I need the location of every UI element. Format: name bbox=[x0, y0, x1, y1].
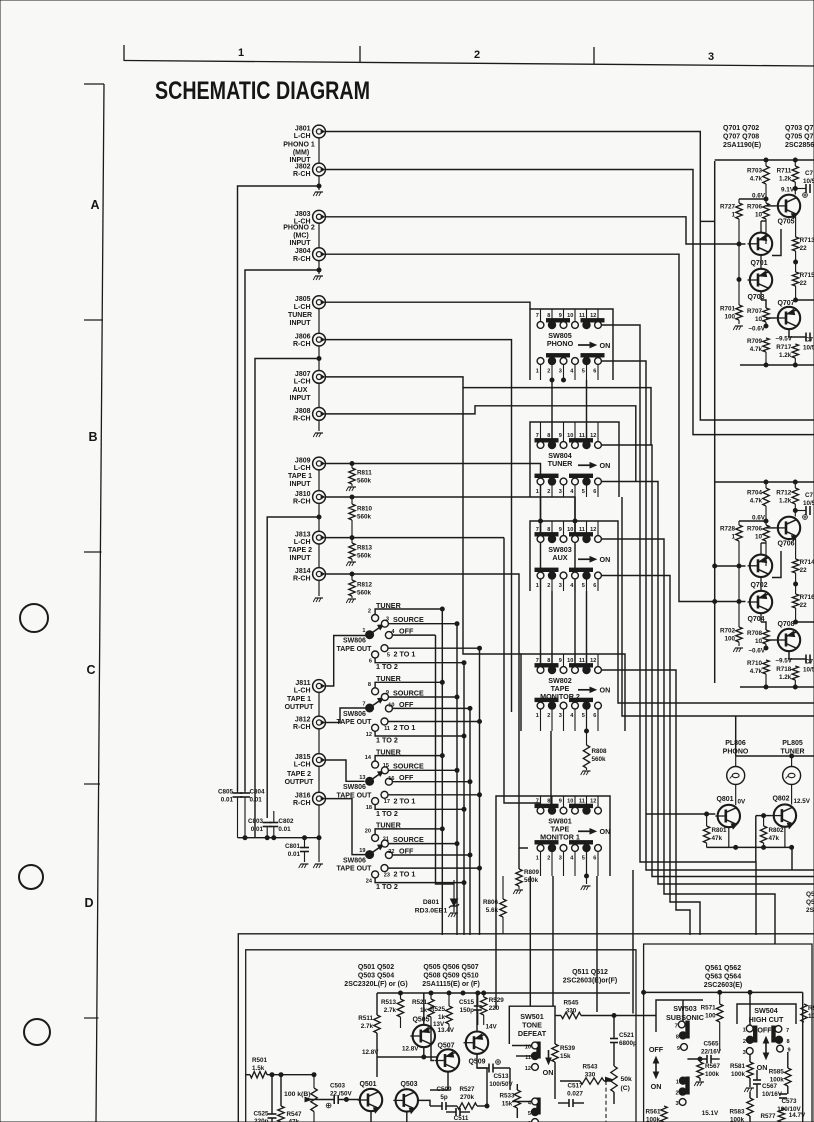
svg-text:560k: 560k bbox=[357, 478, 372, 485]
svg-text:1: 1 bbox=[676, 1080, 679, 1086]
svg-text:C804: C804 bbox=[250, 789, 266, 796]
transistor Q706 bbox=[778, 517, 800, 539]
svg-text:560k: 560k bbox=[357, 514, 372, 521]
svg-text:R810: R810 bbox=[357, 506, 373, 513]
svg-text:R809: R809 bbox=[524, 869, 540, 876]
svg-text:47k: 47k bbox=[712, 835, 723, 842]
wire J805 tuner L bbox=[325, 302, 530, 309]
svg-text:R533: R533 bbox=[499, 1093, 515, 1100]
svg-text:22: 22 bbox=[800, 602, 808, 609]
wire Q801 base bbox=[646, 813, 715, 815]
svg-text:5: 5 bbox=[582, 489, 585, 495]
wire bus L1 bbox=[602, 325, 757, 935]
transistor Q705 bbox=[778, 195, 800, 217]
svg-text:1: 1 bbox=[238, 47, 244, 59]
svg-text:2: 2 bbox=[547, 583, 550, 589]
svg-text:Q561 Q562: Q561 Q562 bbox=[705, 965, 741, 972]
svg-text:Q5: Q5 bbox=[806, 899, 814, 906]
left margin border bbox=[84, 83, 104, 85]
svg-text:AUX: AUX bbox=[293, 387, 308, 394]
resistor R715 22 bbox=[792, 272, 798, 286]
svg-text:7: 7 bbox=[362, 702, 365, 708]
switch SW806 TAPE OUT section 19 bbox=[366, 851, 374, 859]
transistor Q707 bbox=[778, 307, 800, 329]
resistor R808 560k bbox=[586, 709, 588, 745]
svg-text:15k: 15k bbox=[560, 1053, 571, 1060]
svg-text:R706: R706 bbox=[747, 526, 763, 533]
svg-text:12.5V: 12.5V bbox=[794, 798, 811, 805]
svg-text:A: A bbox=[90, 198, 99, 212]
svg-text:INPUT: INPUT bbox=[290, 320, 312, 327]
svg-text:10: 10 bbox=[755, 638, 763, 645]
wire bus F bbox=[495, 876, 497, 1009]
jack J808 bbox=[313, 408, 326, 421]
svg-text:J815: J815 bbox=[295, 754, 311, 761]
potentiometer 50k (C) bbox=[611, 1066, 617, 1092]
svg-text:12: 12 bbox=[590, 658, 596, 664]
svg-text:R501: R501 bbox=[252, 1057, 268, 1064]
svg-text:R801: R801 bbox=[712, 827, 728, 834]
svg-text:22 /50V: 22 /50V bbox=[330, 1090, 353, 1097]
wire J815 to SW806 wiper 13 bbox=[325, 760, 364, 781]
svg-text:1: 1 bbox=[536, 489, 539, 495]
wire Q802 emitter bbox=[784, 827, 786, 848]
svg-text:9: 9 bbox=[386, 690, 389, 696]
switch SW503 SUBSONIC box bbox=[656, 1000, 703, 1032]
svg-text:ON: ON bbox=[600, 686, 611, 695]
svg-text:1.2k: 1.2k bbox=[779, 352, 792, 359]
svg-text:AUX: AUX bbox=[552, 553, 567, 562]
wire bus L6 bbox=[602, 576, 701, 936]
resistor R703 4.7k bbox=[765, 160, 767, 166]
svg-text:100: 100 bbox=[724, 636, 735, 643]
ground below J808 bbox=[315, 432, 323, 434]
svg-text:22: 22 bbox=[800, 567, 808, 574]
svg-text:J813: J813 bbox=[295, 532, 311, 539]
svg-text:3: 3 bbox=[386, 617, 389, 623]
svg-text:3: 3 bbox=[675, 1101, 678, 1107]
wire SW802 to SW801 bbox=[550, 731, 552, 806]
svg-text:TUNER: TUNER bbox=[288, 312, 312, 319]
bottom right box bbox=[644, 944, 812, 1122]
transistor Q802 bbox=[774, 804, 796, 826]
svg-text:6800p: 6800p bbox=[619, 1040, 637, 1047]
resistor R707 10 bbox=[760, 291, 762, 300]
bottom section outer box bbox=[238, 934, 814, 1122]
svg-text:TAPE 1: TAPE 1 bbox=[287, 696, 311, 703]
resistor R521 1k bbox=[430, 993, 432, 999]
svg-text:R706: R706 bbox=[747, 204, 763, 211]
svg-text:12: 12 bbox=[366, 732, 372, 738]
wire left rail from J804 ground node bbox=[245, 270, 319, 791]
svg-text:C503: C503 bbox=[330, 1083, 346, 1090]
resistor R704 4.7k bbox=[765, 482, 767, 488]
svg-text:1 TO 2: 1 TO 2 bbox=[376, 882, 398, 891]
svg-text:10: 10 bbox=[525, 1045, 531, 1051]
ground below J814 bbox=[315, 597, 323, 599]
resistor R717 1.2k bbox=[792, 344, 798, 358]
wire SW801 contact5 ground stub bbox=[586, 852, 588, 884]
wire Q701 emitter bbox=[760, 221, 762, 233]
lamp PL806 bbox=[735, 756, 737, 767]
svg-text:R701: R701 bbox=[720, 306, 736, 313]
svg-text:TUNER: TUNER bbox=[548, 459, 574, 468]
svg-text:SCHEMATIC DIAGRAM: SCHEMATIC DIAGRAM bbox=[155, 77, 370, 105]
resistor R708 10 bbox=[760, 613, 762, 622]
svg-text:10: 10 bbox=[567, 527, 573, 533]
svg-text:22: 22 bbox=[800, 245, 808, 252]
resistor R810 560k bbox=[351, 497, 353, 504]
wire contact off bbox=[392, 707, 470, 709]
svg-text:C801: C801 bbox=[285, 843, 301, 850]
wire Q509 emitter bbox=[477, 1054, 487, 1068]
svg-text:8: 8 bbox=[547, 433, 550, 439]
svg-text:R715: R715 bbox=[800, 272, 814, 279]
ground below SW801 bbox=[583, 885, 591, 887]
wire base Q707 bbox=[766, 317, 776, 319]
svg-text:C805: C805 bbox=[218, 789, 234, 796]
jack J811 bbox=[313, 680, 326, 693]
svg-text:Q505: Q505 bbox=[412, 1017, 429, 1024]
capacitor C573 100/10V bbox=[779, 1093, 787, 1095]
wire J816 to SW806 wiper 19 bbox=[325, 799, 365, 855]
svg-text:2 TO 1: 2 TO 1 bbox=[394, 870, 416, 879]
svg-text:100 k(B): 100 k(B) bbox=[284, 1091, 310, 1098]
svg-text:10: 10 bbox=[567, 798, 573, 804]
svg-text:4.7k: 4.7k bbox=[750, 668, 763, 675]
svg-text:L-CH: L-CH bbox=[294, 465, 311, 472]
svg-text:2: 2 bbox=[474, 49, 480, 61]
wire J807 aux L bbox=[325, 377, 651, 445]
svg-text:C517: C517 bbox=[567, 1083, 583, 1090]
svg-text:47k: 47k bbox=[289, 1119, 300, 1122]
resistor R710 4.7k bbox=[763, 660, 769, 674]
svg-text:R718: R718 bbox=[776, 666, 792, 673]
svg-text:TAPE 2: TAPE 2 bbox=[287, 771, 311, 778]
svg-text:R813: R813 bbox=[357, 545, 373, 552]
svg-text:17: 17 bbox=[384, 799, 390, 805]
wire J810 tape1 in R bbox=[325, 497, 575, 663]
svg-text:J812: J812 bbox=[295, 717, 311, 724]
svg-text:2: 2 bbox=[547, 713, 550, 719]
capacitor C802 0.01 bbox=[273, 811, 275, 823]
svg-text:50k: 50k bbox=[621, 1076, 633, 1083]
svg-text:20: 20 bbox=[365, 828, 371, 834]
wire Q802 base bbox=[756, 815, 772, 817]
svg-text:R577: R577 bbox=[760, 1113, 776, 1120]
svg-text:0.01: 0.01 bbox=[250, 797, 263, 804]
svg-text:270k: 270k bbox=[460, 1094, 475, 1101]
wire contact 1to2 bbox=[375, 658, 464, 663]
svg-text:R5: R5 bbox=[808, 1005, 814, 1012]
wire base Q705 bbox=[766, 205, 776, 207]
svg-text:ON: ON bbox=[651, 1082, 662, 1091]
wire cascode bbox=[772, 229, 781, 256]
resistor R585 100k bbox=[785, 1068, 791, 1086]
svg-text:SOURCE: SOURCE bbox=[393, 615, 424, 624]
svg-text:R-CH: R-CH bbox=[293, 576, 311, 583]
svg-text:100k: 100k bbox=[770, 1077, 785, 1084]
svg-text:ON: ON bbox=[543, 1068, 554, 1077]
svg-text:R711: R711 bbox=[777, 168, 792, 175]
svg-text:11: 11 bbox=[525, 1055, 531, 1061]
svg-text:SOURCE: SOURCE bbox=[393, 688, 424, 697]
capacitor C7 electrolytic bbox=[795, 510, 806, 512]
resistor R539 15k bbox=[552, 1044, 558, 1062]
resistor R525 1k bbox=[448, 993, 450, 1006]
switch SW805 ON arrow bbox=[578, 344, 593, 346]
svg-text:5: 5 bbox=[582, 583, 585, 589]
svg-text:TAPE OUT: TAPE OUT bbox=[337, 719, 373, 726]
resistor R567 100k bbox=[697, 1062, 703, 1078]
svg-text:3: 3 bbox=[559, 583, 562, 589]
svg-text:2SC2603(E): 2SC2603(E) bbox=[704, 982, 743, 989]
svg-text:R547: R547 bbox=[287, 1111, 303, 1118]
wire lamp feed 1 bbox=[618, 591, 814, 703]
switch SW803 ON arrow bbox=[578, 558, 593, 560]
wire tone amp top rail bbox=[377, 992, 630, 994]
svg-text:2S: 2S bbox=[806, 907, 814, 914]
svg-text:11: 11 bbox=[579, 798, 585, 804]
svg-text:1.2k: 1.2k bbox=[779, 674, 792, 681]
svg-text:7: 7 bbox=[675, 1024, 678, 1030]
svg-text:R714: R714 bbox=[800, 559, 814, 566]
svg-text:Q503 Q504: Q503 Q504 bbox=[358, 973, 394, 980]
svg-text:INPUT: INPUT bbox=[290, 481, 312, 488]
ground below R813 bbox=[348, 561, 356, 563]
svg-text:TAPE OUT: TAPE OUT bbox=[337, 792, 373, 799]
svg-text:R707: R707 bbox=[747, 308, 763, 315]
svg-text:10/5: 10/5 bbox=[803, 500, 814, 507]
ground below R808 bbox=[583, 770, 591, 772]
jack J809 bbox=[313, 457, 326, 470]
svg-text:4.7k: 4.7k bbox=[750, 498, 763, 505]
svg-text:C7: C7 bbox=[805, 170, 814, 177]
svg-text:HIGH CUT: HIGH CUT bbox=[749, 1015, 784, 1024]
svg-text:14: 14 bbox=[365, 755, 372, 761]
svg-text:OUTPUT: OUTPUT bbox=[285, 704, 315, 711]
wire lamp section bottom bbox=[707, 847, 792, 870]
resistor R801 47k bbox=[706, 814, 708, 826]
wire contact tuner bbox=[375, 682, 442, 688]
svg-text:9: 9 bbox=[677, 1046, 680, 1052]
svg-text:R-CH: R-CH bbox=[293, 416, 311, 423]
svg-text:0.01: 0.01 bbox=[288, 851, 301, 858]
jack J807 bbox=[313, 371, 326, 384]
switch SW501 contacts lower bbox=[537, 1098, 540, 1114]
wire amp bottom rail bbox=[740, 686, 814, 688]
svg-text:R571: R571 bbox=[701, 1005, 717, 1012]
svg-text:R703: R703 bbox=[747, 168, 763, 175]
svg-text:8: 8 bbox=[547, 798, 550, 804]
wire jack stems phono2 bbox=[318, 223, 320, 248]
hole punch marks bbox=[20, 604, 48, 632]
wire bus E bbox=[479, 648, 481, 935]
svg-text:12: 12 bbox=[590, 798, 596, 804]
svg-text:R-CH: R-CH bbox=[293, 800, 311, 807]
wire contact off bbox=[392, 781, 470, 783]
transistor Q505 bbox=[413, 1025, 435, 1047]
svg-text:5p: 5p bbox=[440, 1094, 448, 1101]
svg-text:R710: R710 bbox=[747, 660, 763, 667]
svg-text:C7: C7 bbox=[805, 659, 814, 666]
resistor R712 1.2k bbox=[794, 482, 796, 488]
resistor R813 560k bbox=[351, 538, 353, 543]
svg-text:8: 8 bbox=[547, 527, 550, 533]
wire J806 tuner R bbox=[325, 340, 511, 712]
svg-text:C511: C511 bbox=[454, 1115, 469, 1122]
wire bus L4 bbox=[602, 482, 814, 885]
svg-text:6: 6 bbox=[593, 583, 596, 589]
wire C513 right bbox=[509, 1068, 511, 1090]
svg-text:Q701 Q702: Q701 Q702 bbox=[723, 125, 759, 132]
svg-text:INPUT: INPUT bbox=[290, 157, 312, 164]
switch SW801 ON arrow bbox=[578, 830, 593, 832]
svg-text:ON: ON bbox=[757, 1063, 768, 1072]
resistor R728 bbox=[738, 521, 740, 525]
wire right box rail bbox=[644, 991, 803, 993]
svg-text:J809: J809 bbox=[295, 458, 311, 465]
svg-text:OFF: OFF bbox=[757, 1026, 772, 1035]
svg-text:1: 1 bbox=[731, 534, 735, 541]
svg-text:8: 8 bbox=[787, 1039, 790, 1045]
svg-text:R802: R802 bbox=[769, 827, 785, 834]
resistor R802 47k bbox=[763, 816, 765, 826]
wire contact tuner bbox=[375, 829, 442, 835]
wire contact off bbox=[392, 854, 470, 856]
switch SW804 bottom contacts bbox=[535, 474, 558, 477]
wire Q507 base bbox=[431, 1025, 434, 1061]
svg-text:1: 1 bbox=[362, 628, 365, 634]
jack J815 bbox=[313, 754, 326, 767]
switch SW504 left contacts bbox=[754, 1026, 757, 1042]
wire Q801 emitter bbox=[728, 827, 730, 847]
resistor R571 100 bbox=[719, 992, 721, 1004]
svg-text:13: 13 bbox=[359, 775, 365, 781]
svg-text:ON: ON bbox=[600, 827, 611, 836]
wire bus J bbox=[632, 870, 634, 1014]
svg-text:C802: C802 bbox=[278, 818, 294, 825]
svg-text:J803: J803 bbox=[295, 211, 311, 218]
switch SW801 bottom contacts bbox=[535, 841, 558, 844]
svg-text:OFF: OFF bbox=[399, 627, 414, 636]
svg-text:9.1V: 9.1V bbox=[781, 187, 795, 194]
svg-text:Q505 Q506 Q507: Q505 Q506 Q507 bbox=[423, 964, 478, 971]
ground below D801 bbox=[450, 912, 458, 914]
resistor R706 10 bbox=[763, 203, 769, 219]
svg-text:Q508 Q509 Q510: Q508 Q509 Q510 bbox=[423, 973, 478, 980]
svg-text:12: 12 bbox=[590, 433, 596, 439]
wire jack stems aux bbox=[318, 383, 320, 407]
switch SW804 block outline bbox=[530, 422, 619, 497]
resistor R513 2.7k bbox=[400, 993, 402, 999]
svg-text:J802: J802 bbox=[295, 164, 311, 171]
svg-text:Q507: Q507 bbox=[437, 1043, 454, 1050]
wire bus L5 bbox=[602, 539, 776, 944]
svg-text:R539: R539 bbox=[560, 1045, 576, 1052]
svg-text:OUTPUT: OUTPUT bbox=[285, 779, 315, 786]
svg-text:L-CH: L-CH bbox=[294, 688, 311, 695]
svg-text:PHONO 2: PHONO 2 bbox=[283, 225, 315, 232]
svg-text:R511: R511 bbox=[358, 1015, 373, 1022]
svg-text:SOURCE: SOURCE bbox=[393, 762, 424, 771]
switch SW501 ON arrow bbox=[548, 1050, 550, 1061]
svg-text:J816: J816 bbox=[295, 793, 311, 800]
wire bus D2 bbox=[469, 708, 471, 935]
svg-text:RD3.0EB1: RD3.0EB1 bbox=[415, 908, 448, 915]
svg-text:100: 100 bbox=[705, 1013, 716, 1020]
wire jack stems tape2 in bbox=[318, 544, 320, 568]
wire SW504 stubs bbox=[749, 992, 751, 1025]
svg-text:SUBSONIC: SUBSONIC bbox=[666, 1013, 704, 1022]
resistor R511 2.7k bbox=[374, 1015, 380, 1033]
switch SW804 ON arrow bbox=[578, 464, 593, 466]
svg-text:D801: D801 bbox=[423, 899, 439, 906]
svg-text:R585: R585 bbox=[769, 1069, 785, 1076]
svg-text:R808: R808 bbox=[592, 748, 608, 755]
svg-text:18: 18 bbox=[366, 805, 372, 811]
svg-text:2 TO 1: 2 TO 1 bbox=[394, 650, 416, 659]
svg-text:2SC2603(E)or(F): 2SC2603(E)or(F) bbox=[563, 978, 617, 985]
svg-text:6: 6 bbox=[369, 659, 372, 665]
svg-text:10: 10 bbox=[567, 313, 573, 319]
transistor Q507 bbox=[437, 1049, 459, 1071]
ground below R702 bbox=[735, 647, 743, 649]
bottom left box bbox=[246, 950, 636, 1122]
svg-text:R561: R561 bbox=[645, 1109, 661, 1116]
transistor Q801 bbox=[718, 805, 740, 827]
capacitor C515 150p bbox=[477, 993, 479, 1005]
svg-text:2: 2 bbox=[547, 856, 550, 862]
jack J816 bbox=[313, 792, 326, 805]
switch SW503 contacts upper bbox=[686, 1021, 689, 1038]
svg-text:Q703 Q704: Q703 Q704 bbox=[785, 125, 814, 132]
wire contact 2to1 bbox=[388, 721, 480, 723]
svg-text:2SC2856(E): 2SC2856(E) bbox=[785, 142, 814, 149]
capacitor C7 electrolytic bbox=[789, 329, 806, 337]
svg-text:Q702: Q702 bbox=[750, 582, 767, 589]
svg-text:10/5: 10/5 bbox=[803, 178, 814, 185]
svg-text:1.2k: 1.2k bbox=[779, 176, 792, 183]
svg-text:12: 12 bbox=[590, 527, 596, 533]
capacitor C801 0.01 bbox=[304, 838, 306, 847]
svg-text:Q705: Q705 bbox=[777, 219, 794, 226]
wire base Q708 bbox=[766, 639, 776, 641]
svg-text:1: 1 bbox=[743, 1028, 746, 1034]
ground below J816 bbox=[315, 863, 323, 865]
lamp PL805 bbox=[791, 756, 793, 767]
svg-text:D: D bbox=[84, 896, 93, 910]
wire Q503 emitter down bbox=[406, 1112, 408, 1122]
svg-text:Q707 Q708: Q707 Q708 bbox=[723, 134, 759, 141]
svg-text:5: 5 bbox=[582, 856, 585, 862]
svg-text:7: 7 bbox=[786, 1028, 789, 1034]
svg-text:PHONO 1: PHONO 1 bbox=[283, 142, 315, 149]
svg-text:7: 7 bbox=[536, 433, 539, 439]
wire bus L7 bbox=[602, 670, 691, 935]
wire SW805 to SW804 bbox=[551, 380, 553, 441]
svg-text:L-CH: L-CH bbox=[294, 539, 311, 546]
svg-text:1.2k: 1.2k bbox=[779, 498, 792, 505]
wire bus L2 bbox=[602, 361, 814, 870]
wire contact tuner bbox=[375, 756, 442, 762]
svg-text:OFF: OFF bbox=[399, 700, 414, 709]
wire left rail from J806 node bbox=[255, 359, 319, 838]
svg-text:560k: 560k bbox=[357, 590, 372, 597]
wire J813 drop to SW801 bbox=[504, 538, 541, 803]
wire SW501 contact stubs bbox=[512, 1045, 532, 1047]
svg-text:R525: R525 bbox=[430, 1006, 446, 1013]
